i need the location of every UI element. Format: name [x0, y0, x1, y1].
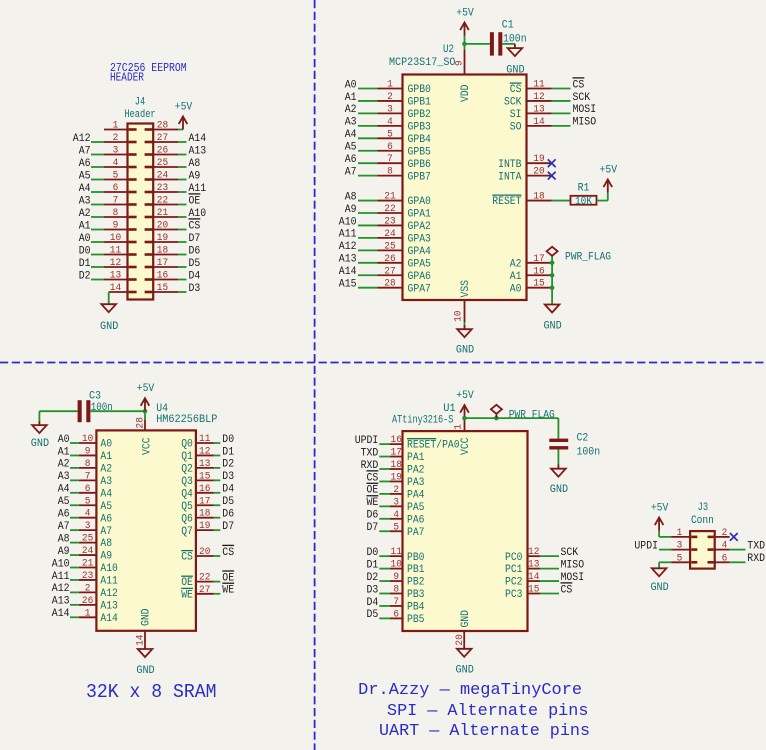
- net label D3: [367, 584, 379, 596]
- svg-text:D2: D2: [79, 270, 91, 282]
- wire: [465, 43, 490, 45]
- svg-text:GPB6: GPB6: [408, 159, 431, 171]
- svg-text:19: 19: [157, 233, 168, 244]
- svg-text:6: 6: [387, 142, 393, 153]
- net label A3: [58, 471, 70, 483]
- J4 pin 18: [145, 246, 178, 257]
- ground (U2 address pins): [543, 305, 562, 333]
- wire: [379, 593, 390, 595]
- svg-text:A15: A15: [339, 279, 357, 291]
- net label D1: [79, 258, 91, 270]
- net label A2: [58, 459, 70, 471]
- wire: [70, 616, 79, 618]
- wire: [178, 166, 187, 168]
- net label RXD: [747, 553, 765, 565]
- U2 pin 24 (GPA3): [378, 229, 431, 246]
- svg-text:A13: A13: [339, 254, 357, 266]
- svg-text:CS: CS: [561, 584, 573, 596]
- J4 pin 19: [145, 233, 178, 244]
- net label MOSI: [561, 572, 585, 584]
- svg-text:A0: A0: [345, 79, 357, 91]
- svg-text:PA2: PA2: [407, 465, 425, 477]
- net label A13: [52, 596, 70, 608]
- svg-text:7: 7: [387, 154, 393, 165]
- svg-text:26: 26: [384, 254, 395, 265]
- svg-text:A2: A2: [58, 459, 70, 471]
- svg-text:22: 22: [199, 573, 210, 584]
- net label A6: [58, 509, 70, 521]
- svg-text:C3: C3: [89, 391, 101, 403]
- junction: [550, 285, 555, 290]
- svg-text:U1: U1: [443, 403, 456, 415]
- wire: [178, 291, 187, 293]
- junction: [143, 409, 148, 414]
- svg-text:4: 4: [85, 509, 91, 520]
- svg-text:Conn: Conn: [691, 515, 714, 527]
- svg-text:A13: A13: [100, 600, 118, 612]
- wire: [91, 204, 104, 206]
- wire: [557, 418, 559, 439]
- power +5V (U1): [456, 390, 474, 418]
- svg-text:CS: CS: [181, 552, 193, 564]
- U2 pin 9 (VDD): [455, 50, 473, 102]
- wire: [464, 36, 466, 50]
- svg-text:24: 24: [82, 546, 93, 557]
- svg-text:UART — Alternate pins: UART — Alternate pins: [379, 721, 590, 740]
- svg-text:5: 5: [393, 522, 399, 533]
- svg-text:10: 10: [82, 434, 93, 445]
- svg-text:PA7: PA7: [407, 527, 425, 539]
- svg-text:CS: CS: [222, 547, 234, 559]
- J4 pin 2: [104, 133, 137, 144]
- svg-text:GND: GND: [543, 321, 562, 333]
- svg-text:3: 3: [677, 541, 683, 552]
- J3 pin 5: [672, 553, 698, 564]
- svg-text:A14: A14: [100, 613, 118, 625]
- svg-text:RXD: RXD: [361, 460, 379, 472]
- svg-text:2: 2: [722, 528, 728, 539]
- no-connect: [548, 172, 556, 180]
- wire: [358, 125, 378, 127]
- svg-text:23: 23: [82, 571, 93, 582]
- svg-text:14: 14: [528, 572, 539, 583]
- no-connect: [548, 159, 556, 167]
- net label A10: [189, 208, 207, 220]
- J4 pin 20: [145, 221, 178, 232]
- section divider vertical (dashed blue): [314, 0, 316, 750]
- net label A12: [73, 133, 91, 145]
- svg-text:Q2: Q2: [181, 464, 193, 476]
- svg-text:13: 13: [199, 459, 210, 470]
- J4 pin 24: [145, 171, 178, 182]
- header J4 reference J4: [135, 97, 146, 109]
- net label A14: [189, 133, 207, 145]
- svg-text:Q0: Q0: [181, 439, 193, 451]
- J3 pin 1: [672, 528, 698, 539]
- J4 pin 13: [104, 271, 137, 282]
- svg-text:GPA6: GPA6: [408, 271, 431, 283]
- svg-text:9: 9: [455, 60, 466, 66]
- IC U1 reference U1: [443, 403, 456, 415]
- ground (C2): [550, 465, 569, 497]
- svg-text:+5V: +5V: [456, 8, 474, 20]
- net label A8: [345, 191, 357, 203]
- net label A5: [79, 170, 91, 182]
- svg-text:14: 14: [110, 283, 121, 294]
- power +5V (U4): [137, 383, 155, 411]
- svg-text:1: 1: [113, 121, 119, 132]
- ground (C1): [506, 44, 525, 77]
- svg-text:4: 4: [113, 158, 119, 169]
- wire: [178, 279, 187, 281]
- J4 pin 1: [104, 121, 137, 132]
- svg-text:+5V: +5V: [456, 390, 474, 402]
- svg-text:9: 9: [113, 221, 119, 232]
- U2 pin 20 (INTA): [498, 167, 551, 184]
- U2 pin 19 (INTB): [498, 154, 551, 171]
- svg-text:8: 8: [393, 585, 399, 596]
- wire: [70, 517, 79, 519]
- svg-text:2: 2: [85, 583, 91, 594]
- U4 pin 27 (WE): [181, 585, 213, 602]
- svg-text:D1: D1: [367, 559, 379, 571]
- wire: [70, 467, 79, 469]
- wire: [178, 216, 187, 218]
- svg-text:A4: A4: [79, 183, 91, 195]
- svg-text:A10: A10: [339, 216, 357, 228]
- U2 pin 8 (GPB7): [378, 167, 431, 184]
- U4 pin 3 (A7): [79, 521, 112, 538]
- U4 pin 23 (A11): [79, 571, 118, 588]
- svg-text:22: 22: [157, 196, 168, 207]
- svg-text:CS: CS: [573, 79, 585, 91]
- net label D4: [189, 270, 201, 282]
- wire: [178, 229, 187, 231]
- wire: [214, 517, 221, 519]
- J4 pin 10: [104, 233, 137, 244]
- note UART - Alternate pins: [379, 721, 590, 740]
- svg-text:26: 26: [82, 596, 93, 607]
- power flag PWR_FLAG (U1): [491, 405, 555, 422]
- wire: [178, 254, 187, 256]
- svg-text:A11: A11: [339, 229, 357, 241]
- wire: [214, 504, 221, 506]
- wire: [70, 579, 79, 581]
- connector J3 value Conn: [691, 515, 714, 527]
- R1 reference R1: [578, 182, 590, 194]
- svg-text:PB0: PB0: [407, 552, 425, 564]
- net label CS: [573, 78, 585, 91]
- U4 pin 2 (A12): [79, 583, 118, 600]
- U1 pin 12 (PC0): [505, 547, 540, 564]
- ground (U4): [136, 645, 155, 677]
- svg-text:18: 18: [199, 509, 210, 520]
- R1 value 10K: [575, 196, 593, 208]
- power +5V (R1): [600, 165, 618, 193]
- svg-text:WE: WE: [222, 585, 234, 597]
- svg-text:INTA: INTA: [498, 171, 522, 183]
- power +5V (U2): [456, 8, 474, 36]
- svg-text:5: 5: [387, 129, 393, 140]
- net label OE: [367, 483, 379, 496]
- U2 pin 11 (CS): [510, 80, 552, 97]
- U2 pin 4 (GPB3): [378, 117, 431, 134]
- svg-text:17: 17: [391, 448, 402, 459]
- J3 pin 6: [708, 553, 730, 564]
- J4 pin 21: [145, 208, 178, 219]
- svg-text:1: 1: [453, 424, 464, 430]
- net label OE: [189, 194, 201, 207]
- net label D4: [367, 597, 379, 609]
- svg-text:J3: J3: [698, 502, 709, 514]
- section divider horizontal (dashed blue): [0, 362, 766, 364]
- net label A4: [345, 129, 357, 141]
- svg-text:PA3: PA3: [407, 477, 425, 489]
- svg-text:23: 23: [384, 216, 395, 227]
- svg-text:GPB5: GPB5: [408, 146, 431, 158]
- J4 pin 6: [104, 183, 137, 194]
- wire: [70, 492, 79, 494]
- wire: [540, 555, 559, 557]
- svg-text:J4: J4: [135, 97, 146, 109]
- svg-text:MOSI: MOSI: [573, 104, 597, 116]
- svg-text:3: 3: [387, 104, 393, 115]
- U2 pin 6 (GPB5): [378, 142, 431, 159]
- power +5V (J4 pin 28): [175, 102, 193, 130]
- svg-text:A6: A6: [100, 513, 112, 525]
- svg-text:PA1: PA1: [407, 452, 425, 464]
- svg-text:Q7: Q7: [181, 526, 193, 538]
- svg-text:19: 19: [533, 154, 544, 165]
- net label A12: [52, 583, 70, 595]
- svg-text:17: 17: [199, 496, 210, 507]
- net label D1: [367, 559, 379, 571]
- svg-text:15: 15: [533, 279, 544, 290]
- svg-text:15: 15: [157, 283, 168, 294]
- wire: [91, 241, 104, 243]
- J4 pin 12: [104, 258, 137, 269]
- svg-text:SCK: SCK: [573, 92, 591, 104]
- svg-text:2: 2: [393, 485, 399, 496]
- U1 pin 13 (PC1): [505, 560, 540, 577]
- svg-text:Q3: Q3: [181, 476, 193, 488]
- svg-text:3: 3: [113, 146, 119, 157]
- svg-text:MOSI: MOSI: [561, 572, 585, 584]
- capacitor C3: [78, 400, 91, 422]
- U1 pin 7 (PB4): [390, 597, 425, 614]
- wire: [91, 166, 104, 168]
- svg-text:A7: A7: [100, 526, 112, 538]
- net label A15: [339, 279, 357, 291]
- J3 pin 4: [708, 541, 730, 552]
- svg-text:D0: D0: [367, 547, 379, 559]
- svg-text:MISO: MISO: [573, 117, 597, 129]
- wire: [144, 411, 146, 420]
- net label A7: [79, 145, 91, 157]
- wire: [379, 468, 390, 470]
- net label SCK: [573, 92, 591, 104]
- svg-text:GPA1: GPA1: [408, 209, 431, 221]
- svg-text:+5V: +5V: [175, 102, 193, 114]
- net label D2: [79, 270, 91, 282]
- svg-text:OE: OE: [181, 577, 193, 589]
- U1 pin 6 (PB5): [390, 609, 425, 626]
- svg-text:20: 20: [533, 167, 544, 178]
- svg-text:D3: D3: [367, 584, 379, 596]
- svg-text:C1: C1: [502, 19, 514, 31]
- svg-text:13: 13: [110, 271, 121, 282]
- U1 pin 3 (PA5): [390, 497, 425, 514]
- ground (J3): [650, 568, 669, 594]
- svg-text:4: 4: [722, 541, 728, 552]
- net label A13: [189, 145, 207, 157]
- U4 pin 19 (Q7): [181, 521, 213, 538]
- svg-text:A8: A8: [345, 191, 357, 203]
- svg-text:D5: D5: [222, 496, 234, 508]
- C1 value 100n: [503, 33, 527, 45]
- J4 pin 16: [145, 271, 178, 282]
- wire: [358, 137, 378, 139]
- svg-text:A0: A0: [510, 283, 522, 295]
- svg-text:OE: OE: [367, 485, 379, 497]
- U1 pin 9 (PB2): [390, 572, 425, 589]
- svg-text:GPA7: GPA7: [408, 283, 431, 295]
- wire: [91, 266, 104, 268]
- net label A7: [345, 166, 357, 178]
- svg-text:A14: A14: [339, 266, 357, 278]
- net label D2: [222, 459, 234, 471]
- svg-text:25: 25: [384, 241, 395, 252]
- svg-text:PB1: PB1: [407, 564, 425, 576]
- net label D7: [222, 521, 234, 533]
- wire: [91, 229, 104, 231]
- svg-text:GPB1: GPB1: [408, 97, 431, 109]
- svg-text:18: 18: [533, 192, 544, 203]
- svg-text:22: 22: [384, 204, 395, 215]
- J3 pin 2: [708, 528, 730, 539]
- wire: [379, 480, 390, 482]
- net label A1: [345, 92, 357, 104]
- svg-text:PC2: PC2: [505, 577, 523, 589]
- svg-text:25: 25: [157, 158, 168, 169]
- svg-text:PC3: PC3: [505, 589, 523, 601]
- svg-text:A7: A7: [58, 521, 70, 533]
- svg-text:D4: D4: [222, 484, 234, 496]
- svg-text:17: 17: [533, 254, 544, 265]
- J4 pin 15: [145, 283, 178, 294]
- U4 pin 14 (GND): [136, 609, 153, 646]
- net label A0: [79, 233, 91, 245]
- wire: [464, 322, 466, 325]
- svg-text:PWR_FLAG: PWR_FLAG: [565, 252, 611, 264]
- U4 pin 8 (A2): [79, 459, 112, 476]
- svg-text:12: 12: [528, 547, 539, 558]
- J4 pin 25: [145, 158, 178, 169]
- U2 pin 28 (GPA7): [378, 279, 431, 296]
- U4 pin 18 (Q6): [181, 509, 213, 526]
- header J4 body: [128, 124, 154, 300]
- U1 pin 18 (PA2): [390, 460, 425, 477]
- svg-text:RESET/PA0: RESET/PA0: [407, 440, 460, 452]
- svg-text:1: 1: [677, 528, 683, 539]
- net label UPDI: [355, 435, 379, 447]
- svg-text:21: 21: [157, 208, 168, 219]
- U1 pin 2 (PA4): [390, 485, 425, 502]
- wire: [730, 549, 746, 551]
- svg-text:D3: D3: [222, 471, 234, 483]
- wire: [358, 175, 378, 177]
- svg-text:GND: GND: [100, 321, 119, 333]
- wire: [70, 542, 79, 544]
- wire: [91, 191, 104, 193]
- wire: [214, 442, 221, 444]
- note 32K x 8 SRAM: [86, 681, 217, 703]
- net label A3: [79, 195, 91, 207]
- wire: [358, 224, 378, 226]
- net label A14: [52, 608, 70, 620]
- svg-text:A4: A4: [345, 129, 357, 141]
- svg-text:A8: A8: [58, 533, 70, 545]
- U1 pin 14 (PC2): [505, 572, 540, 589]
- svg-text:100n: 100n: [577, 447, 601, 459]
- wire: [91, 254, 104, 256]
- svg-text:A13: A13: [52, 596, 70, 608]
- svg-text:Q5: Q5: [181, 501, 193, 513]
- U4 pin 5 (A5): [79, 496, 112, 513]
- U2 pin 1 (GPB0): [378, 80, 431, 97]
- svg-text:PC0: PC0: [505, 552, 523, 564]
- net label UPDI: [634, 540, 658, 552]
- wire: [552, 125, 571, 127]
- wire: [358, 100, 378, 102]
- U4 pin 21 (A10): [79, 559, 118, 576]
- svg-text:28: 28: [157, 121, 168, 132]
- svg-text:GPA4: GPA4: [408, 246, 431, 258]
- wire: [358, 112, 378, 114]
- svg-text:A10: A10: [52, 558, 70, 570]
- J4 pin 28: [145, 121, 178, 132]
- net label A0: [58, 434, 70, 446]
- svg-text:28: 28: [384, 279, 395, 290]
- net label A11: [52, 571, 70, 583]
- svg-text:A9: A9: [100, 551, 112, 563]
- wire: [659, 536, 671, 538]
- svg-text:A2: A2: [345, 104, 357, 116]
- wire: [540, 580, 559, 582]
- U2 pin 5 (GPB4): [378, 129, 431, 146]
- svg-text:100n: 100n: [91, 402, 113, 414]
- svg-text:17: 17: [157, 258, 168, 269]
- wire: [70, 554, 79, 556]
- resistor R1: [571, 196, 597, 205]
- U2 pin 18 (RESET): [492, 192, 551, 209]
- svg-text:1: 1: [387, 80, 393, 91]
- svg-text:PB3: PB3: [407, 589, 425, 601]
- svg-text:D6: D6: [367, 510, 379, 522]
- wire: [552, 200, 571, 202]
- svg-text:14: 14: [136, 635, 147, 646]
- svg-text:A14: A14: [189, 133, 207, 145]
- svg-text:15: 15: [199, 471, 210, 482]
- svg-text:13: 13: [528, 560, 539, 571]
- svg-text:A8: A8: [189, 158, 201, 170]
- svg-text:Dr.Azzy — megaTinyCore: Dr.Azzy — megaTinyCore: [358, 680, 582, 699]
- net label A3: [345, 117, 357, 129]
- net label D6: [222, 509, 234, 521]
- svg-text:A4: A4: [58, 484, 70, 496]
- svg-text:+5V: +5V: [137, 383, 155, 395]
- U1 pin 8 (PB3): [390, 585, 425, 602]
